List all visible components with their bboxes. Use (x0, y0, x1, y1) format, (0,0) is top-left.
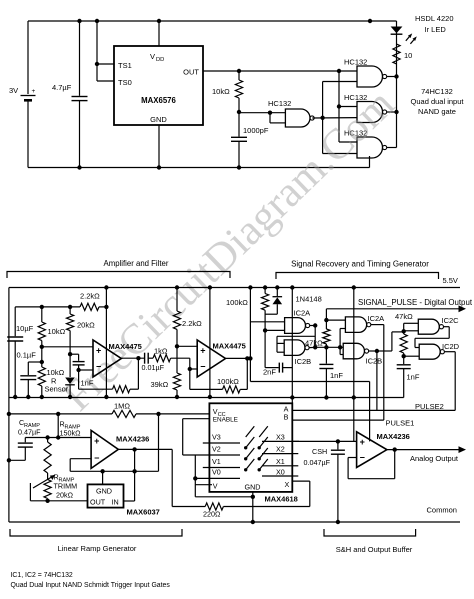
wire X3 row to buffer (292, 439, 356, 443)
svg-text:100kΩ: 100kΩ (226, 298, 248, 307)
svg-text:HC132: HC132 (344, 58, 367, 67)
wire to gate U2 inputs (239, 111, 285, 123)
svg-text:1N4148: 1N4148 (296, 295, 322, 304)
wire VDD pin (157, 19, 161, 46)
svg-text:GND: GND (245, 483, 261, 492)
wire bus from OUT (337, 71, 357, 142)
wire U3A output (387, 74, 399, 78)
wire amp1 output (121, 356, 144, 360)
wire left rail (8, 288, 10, 523)
op-amp U5 MAX4475 (197, 340, 246, 377)
label S&H and Output Buffer (336, 545, 413, 554)
wire top power rail (28, 20, 397, 22)
IC U7 MAX6037 (88, 484, 160, 516)
wire IC2D lower input (404, 355, 420, 357)
svg-text:2.2kΩ: 2.2kΩ (182, 319, 202, 328)
nand gate IC2D (419, 342, 459, 359)
label Analog Output (410, 454, 459, 463)
svg-text:2nF: 2nF (263, 368, 276, 377)
nand gate IC2B-2 (343, 343, 382, 365)
svg-text:MAX6576: MAX6576 (141, 96, 176, 105)
svg-text:−: − (200, 362, 205, 372)
resistor R8 1k (148, 347, 190, 362)
svg-text:220Ω: 220Ω (203, 510, 221, 519)
wire ramp out to 220 (171, 449, 173, 506)
label Signal Recovery and Timing Generator (291, 260, 429, 269)
svg-text:1nF: 1nF (330, 371, 343, 380)
svg-text:X3: X3 (276, 433, 285, 442)
wire ramp feedback riser (124, 449, 135, 501)
capacitor C3 10uF (7, 307, 33, 399)
wire amp2 vdd pass (208, 285, 212, 399)
resistor R12 100k pullup (226, 285, 269, 332)
svg-text:+: + (32, 88, 36, 95)
svg-text:−: − (96, 362, 101, 372)
svg-text:V3: V3 (212, 433, 221, 442)
svg-text:GND: GND (150, 115, 167, 124)
svg-text:V: V (150, 52, 155, 61)
wire IC2A-2 output to PULSE1 (371, 325, 384, 421)
wire OUT net (183, 68, 357, 77)
wire amp1 plus input (42, 346, 93, 348)
wire IC2A-1 upper input (250, 321, 284, 323)
nand gate U3B HC132 (344, 93, 387, 123)
wire IC2C output to IC2D (415, 327, 449, 348)
svg-text:4.7µF: 4.7µF (52, 83, 72, 92)
svg-text:V1: V1 (212, 457, 221, 466)
svg-text:+: + (360, 437, 365, 447)
nand gate U3A HC132 (344, 58, 387, 88)
resistor R13 47k (305, 309, 330, 348)
wire common rail (9, 506, 460, 523)
svg-text:IC2D: IC2D (442, 342, 460, 351)
svg-text:1000pF: 1000pF (243, 126, 269, 135)
svg-text:100kΩ: 100kΩ (217, 377, 239, 386)
svg-text:HC132: HC132 (268, 99, 291, 108)
resistor R9 2.2k bias amp2 (173, 285, 202, 348)
wire PULSE2 line (292, 402, 455, 411)
resistor R16 RRAMP 150k (44, 420, 81, 474)
bracket signal recovery section (276, 273, 439, 280)
resistor R18 220 (172, 503, 310, 519)
wire MAX6037 out pin (48, 500, 88, 502)
wire amp2 output (226, 356, 251, 360)
wire ramp gnd row (70, 469, 158, 473)
wire vcc row to mux (7, 412, 210, 416)
svg-text:0.1µF: 0.1µF (17, 351, 37, 360)
nand gate U3C HC132 (344, 129, 387, 159)
svg-text:IN: IN (112, 498, 119, 507)
svg-text:DD: DD (156, 57, 164, 63)
bracket linear ramp generator (10, 529, 182, 536)
IC U1 MAX6576 (114, 46, 203, 125)
wire mux vcc riser (290, 285, 294, 403)
capacitor C5 1nF amp1 (70, 354, 94, 387)
wire amp2 minus input (188, 358, 198, 371)
wire U3B output (387, 110, 399, 114)
wire cramp row (25, 412, 91, 440)
wire ramp output (118, 447, 172, 451)
capacitor C2 1000pF (231, 112, 269, 170)
resistor R4 10k (38, 307, 65, 349)
wire sensor node (40, 347, 44, 364)
svg-text:47kΩ: 47kΩ (395, 312, 413, 321)
wire V ladder riser (193, 455, 253, 497)
label footnote IC1 IC2 (11, 572, 73, 579)
wire buffer output (387, 446, 466, 453)
svg-text:0.01µF: 0.01µF (142, 363, 165, 372)
svg-text:+: + (96, 345, 101, 355)
LED D1 HSDL-4220 (391, 27, 417, 44)
svg-text:5.5V: 5.5V (443, 276, 458, 285)
wire analog ground rail (9, 396, 404, 398)
svg-text:Analog Output: Analog Output (410, 454, 459, 463)
svg-text:IC1, IC2 = 74HC132: IC1, IC2 = 74HC132 (11, 572, 73, 579)
potentiometer R17 RRAMP TRIMM 20k (30, 473, 77, 503)
svg-text:X1: X1 (276, 457, 285, 466)
svg-text:Linear Ramp Generator: Linear Ramp Generator (58, 544, 137, 553)
svg-text:X: X (285, 480, 290, 489)
wire IC2B-2 lower jog (340, 347, 343, 354)
svg-text:X0: X0 (276, 467, 285, 476)
svg-text:IC2C: IC2C (442, 316, 460, 325)
svg-text:0.047µF: 0.047µF (304, 458, 331, 467)
wire TS1/TS0 tie to VDD rail (95, 19, 114, 81)
wire PULSE1 line (292, 419, 414, 428)
wire V pin row (195, 484, 212, 486)
diode D3 1N4148 (265, 285, 322, 314)
pin stubs X2 X1 X0 (292, 454, 298, 476)
svg-text:Signal Recovery and Timing Gen: Signal Recovery and Timing Generator (291, 260, 429, 269)
svg-text:39kΩ: 39kΩ (151, 380, 169, 389)
wire amp2 plus input (177, 345, 197, 347)
wire IC2A-2 inputs (324, 318, 345, 347)
label 5.5V (443, 276, 458, 285)
wire bus from U2 output (323, 82, 357, 154)
wire U2 output (312, 116, 357, 120)
wire enable row (183, 419, 210, 455)
svg-text:Ir LED: Ir LED (425, 25, 447, 34)
svg-text:Quad Dual Input NAND Schmidt T: Quad Dual Input NAND Schmidt Trigger Inp… (11, 582, 171, 589)
capacitor C1 4.7uF (52, 19, 88, 170)
wire GND pin (157, 125, 161, 170)
svg-text:10µF: 10µF (16, 324, 34, 333)
svg-text:1nF: 1nF (407, 373, 420, 382)
label 39k (151, 380, 169, 389)
svg-text:TRIMM: TRIMM (54, 482, 78, 491)
IC U8 MAX4618 (209, 403, 297, 503)
svg-text:IC2A: IC2A (294, 309, 311, 318)
svg-text:PULSE1: PULSE1 (386, 419, 415, 428)
resistor R7 39k feedback amp1 (79, 358, 139, 393)
watermark (54, 80, 404, 420)
nand gate U2 HC132 (268, 99, 314, 127)
wire signal node row (315, 345, 343, 349)
capacitor C6 0.01uF (142, 353, 165, 372)
svg-text:GND: GND (96, 487, 112, 496)
svg-text:MAX4236: MAX4236 (116, 435, 149, 444)
wire ramp ref riser (156, 412, 160, 472)
svg-text:150kΩ: 150kΩ (60, 429, 82, 438)
svg-text:Amplifier and Filter: Amplifier and Filter (104, 259, 169, 268)
capacitor C7 2nF (263, 330, 292, 376)
svg-text:2.2kΩ: 2.2kΩ (80, 292, 100, 301)
svg-text:+: + (200, 345, 205, 355)
resistor R1 10k (212, 71, 243, 114)
wire buffer feedback (348, 450, 395, 479)
pin lines V3-V0 (183, 443, 240, 478)
capacitor C8 1nF left (319, 347, 343, 399)
svg-text:IC2B: IC2B (366, 356, 383, 365)
wire IC2B-1 input loop (277, 336, 315, 352)
resistor R15 1M (112, 402, 136, 418)
nand gate IC2A-1 (285, 309, 311, 334)
svg-text:20kΩ: 20kΩ (56, 491, 74, 500)
svg-text:47kΩ: 47kΩ (305, 339, 323, 348)
nand gate IC2C (418, 316, 459, 334)
mux switches right (258, 426, 268, 471)
resistor R6 10k sensor (38, 362, 69, 399)
wire mux gnd pin (251, 492, 255, 524)
resistor R3 2.2k (80, 292, 100, 311)
wire U3C output (387, 147, 397, 149)
wire MAX6037 gnd pin (102, 471, 104, 484)
wire LED branch rail (368, 19, 397, 148)
wire IC2B-1 output (309, 346, 315, 348)
capacitor C10 CRAMP 0.47uF (7, 418, 41, 462)
wire IC2D output to PULSE2 (445, 352, 456, 411)
svg-text:NAND gate: NAND gate (418, 107, 456, 116)
nand gate IC2A-2 (345, 314, 384, 332)
wire 5.5V rail (9, 287, 460, 289)
label HSDL 4220 Ir LED (415, 14, 454, 34)
svg-text:SIGNAL_PULSE - Digital Output: SIGNAL_PULSE - Digital Output (358, 298, 473, 307)
resistor R5 20k (67, 307, 96, 377)
wire top ground rail (28, 156, 370, 168)
resistor R10 39k amp2 (173, 346, 180, 399)
pin lines X3-X0 inside (262, 441, 299, 476)
svg-text:74HC132: 74HC132 (421, 87, 453, 96)
svg-text:S&H and Output Buffer: S&H and Output Buffer (336, 545, 413, 554)
bracket amplifier section (7, 272, 230, 279)
svg-text:X2: X2 (276, 445, 285, 454)
wire mux X row from 220 (292, 481, 310, 506)
bracket S&H and output buffer (324, 529, 416, 536)
svg-text:MAX4236: MAX4236 (377, 432, 410, 441)
svg-text:PULSE2: PULSE2 (415, 402, 444, 411)
op-amp U4 MAX4475 (93, 340, 142, 377)
svg-text:MAX4475: MAX4475 (109, 342, 142, 351)
mux switches left (244, 426, 254, 471)
wire IC2B-2 output (368, 329, 406, 353)
svg-text:−: − (94, 453, 99, 463)
wire gates vcc pass (352, 285, 356, 441)
wire amp1 minus input (79, 369, 93, 371)
svg-text:IC2B: IC2B (295, 357, 312, 366)
svg-text:HSDL 4220: HSDL 4220 (415, 14, 454, 23)
svg-text:V0: V0 (212, 467, 221, 476)
label Amplifier and Filter (104, 259, 169, 268)
wire SIGNAL_PULSE line (326, 305, 466, 312)
svg-text:10kΩ: 10kΩ (212, 87, 230, 96)
resistor R11 100k feedback amp2 (190, 358, 248, 393)
svg-text:−: − (360, 453, 365, 463)
svg-text:Sensor: Sensor (45, 385, 69, 394)
svg-text:TS0: TS0 (118, 78, 132, 87)
wire IC2B-2 out riser (376, 351, 378, 410)
wire sample feed (250, 382, 369, 442)
nand gate IC2B-1 (284, 340, 311, 366)
label SIGNAL_PULSE (358, 298, 473, 307)
battery BT1 3V (9, 21, 36, 168)
op-amp U6 MAX4236 ramp (91, 430, 149, 468)
resistor R2 10 (393, 44, 412, 64)
svg-text:3V: 3V (9, 86, 18, 95)
svg-text:+: + (94, 436, 99, 446)
svg-text:CSH: CSH (312, 447, 327, 456)
svg-text:OUT: OUT (90, 498, 106, 507)
wire IC2C inputs (404, 323, 419, 331)
svg-text:0.47µF: 0.47µF (18, 428, 41, 437)
svg-text:1nF: 1nF (81, 379, 94, 388)
svg-text:MAX4475: MAX4475 (213, 342, 246, 351)
op-amp U9 MAX4236 buffer (357, 432, 410, 468)
label 74HC132 block (411, 87, 465, 116)
svg-text:1kΩ: 1kΩ (154, 347, 168, 356)
wire amp1 vdd pass (104, 285, 108, 399)
capacitor C4 0.1uF (17, 351, 42, 400)
svg-text:TS1: TS1 (118, 61, 132, 70)
label Linear Ramp Generator (58, 544, 137, 553)
wire amp2 out riser (248, 285, 252, 381)
svg-text:ENABLE: ENABLE (213, 417, 238, 424)
wire IC2A-1 output (310, 323, 318, 349)
svg-text:Quad dual input: Quad dual input (411, 97, 465, 106)
svg-text:IC2A: IC2A (368, 314, 385, 323)
svg-text:10kΩ: 10kΩ (48, 327, 66, 336)
svg-text:V: V (213, 481, 218, 490)
capacitor C11 CSH 0.047uF (304, 441, 345, 524)
diode D2 sensor comp (65, 378, 75, 400)
svg-text:Common: Common (427, 506, 457, 515)
capacitor C9 1nF right (397, 356, 420, 397)
svg-text:V2: V2 (212, 445, 221, 454)
svg-text:10: 10 (404, 51, 412, 60)
svg-text:B: B (284, 413, 289, 422)
svg-text:MAX4618: MAX4618 (265, 495, 298, 504)
label footnote quad NAND (11, 582, 171, 589)
resistor R14 47k timing (395, 312, 413, 358)
svg-text:1MΩ: 1MΩ (114, 402, 130, 411)
svg-text:20kΩ: 20kΩ (77, 321, 95, 330)
wire IC2A-1 lower input (265, 329, 285, 331)
svg-text:OUT: OUT (183, 68, 199, 77)
wire bias row (15, 305, 106, 309)
wire ramp minus input (70, 459, 91, 472)
svg-text:MAX6037: MAX6037 (127, 508, 160, 517)
